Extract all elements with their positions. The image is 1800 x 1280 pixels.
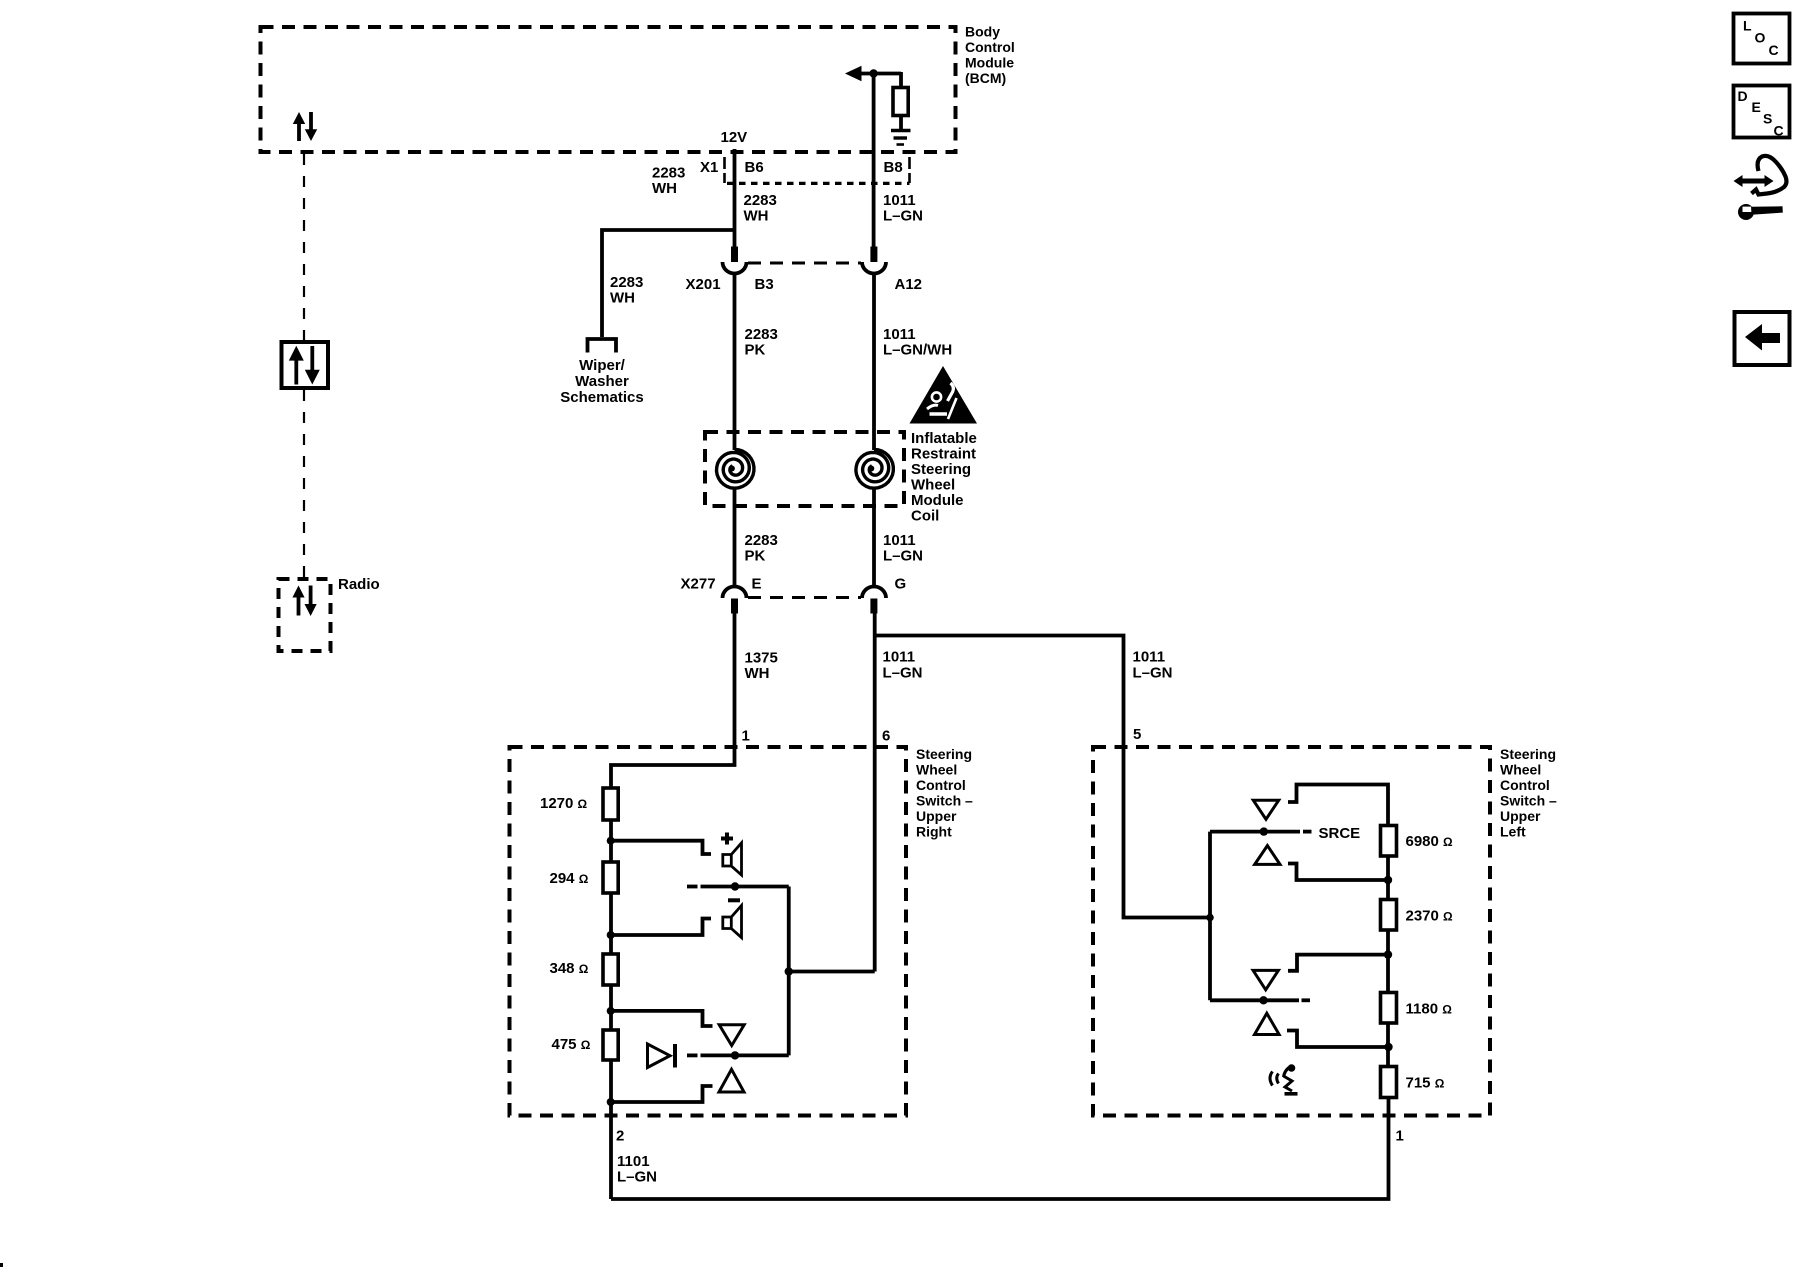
resistor 1270 ohm xyxy=(603,788,618,820)
wire 1011 L-GN to switch pin 6 xyxy=(873,613,877,972)
diagnostic tools icon xyxy=(1734,156,1787,220)
svg-text:Control: Control xyxy=(1500,777,1550,793)
X201 connector dashed link xyxy=(748,262,861,265)
wire seek common arm dash xyxy=(687,1054,698,1058)
svg-text:E: E xyxy=(1752,99,1761,115)
svg-text:1: 1 xyxy=(1396,1128,1404,1145)
wire xyxy=(899,116,903,131)
wire xyxy=(858,72,901,76)
speaker - sign xyxy=(728,898,740,902)
volume up triangle xyxy=(1253,800,1278,819)
svg-text:X201: X201 xyxy=(686,276,721,293)
svg-text:6: 6 xyxy=(882,728,890,745)
svg-text:1011: 1011 xyxy=(1133,649,1166,666)
svg-text:L–GN: L–GN xyxy=(883,665,923,682)
node bus junction c xyxy=(1384,1043,1392,1051)
svg-text:Left: Left xyxy=(1500,824,1526,840)
wire volume common xyxy=(701,885,789,889)
svg-text:L–GN: L–GN xyxy=(1133,665,1173,682)
wire 2283 PK xyxy=(733,274,737,451)
svg-text:1375: 1375 xyxy=(745,650,778,667)
connector X277 pin E (female arch + male bar) xyxy=(723,587,747,614)
svg-text:Steering: Steering xyxy=(916,746,972,762)
wire volume common arm dash xyxy=(687,885,698,889)
node volume common junction xyxy=(731,882,739,890)
wire bus a xyxy=(1386,856,1390,900)
svg-text:B3: B3 xyxy=(755,276,774,293)
svg-text:X1: X1 xyxy=(700,159,718,176)
svg-text:B6: B6 xyxy=(745,159,764,176)
svg-text:715 Ω: 715 Ω xyxy=(1406,1075,1445,1092)
wire common bus xyxy=(787,887,791,1056)
wire seek-up contact xyxy=(611,1011,713,1026)
svg-text:Wheel: Wheel xyxy=(911,477,955,494)
node ladder junction 2 xyxy=(607,931,615,939)
svg-text:C: C xyxy=(1774,123,1784,139)
svg-text:L: L xyxy=(1743,18,1752,34)
speaker icon (volume down) xyxy=(723,905,742,937)
Steering Wheel Control Switch - Upper Right dashed box xyxy=(510,747,907,1116)
resistor 1180 ohm xyxy=(1381,993,1397,1024)
radio box arrows xyxy=(292,586,316,617)
node bus junction b xyxy=(1384,950,1392,958)
svg-text:2283: 2283 xyxy=(745,326,778,343)
wire volume-up contact xyxy=(1288,785,1388,827)
wire volume-down contact xyxy=(1288,864,1388,881)
wire 1011 L-GN (below coil) xyxy=(872,487,876,587)
svg-text:Wiper/: Wiper/ xyxy=(579,357,626,374)
svg-text:2283: 2283 xyxy=(744,192,777,209)
svg-text:6980 Ω: 6980 Ω xyxy=(1406,833,1454,850)
diode xyxy=(648,1044,676,1068)
SIR caution triangle symbol xyxy=(910,366,978,424)
back nav button xyxy=(1735,312,1790,365)
svg-text:2283: 2283 xyxy=(610,274,643,291)
node feed junction xyxy=(1206,914,1214,922)
svg-text:(BCM): (BCM) xyxy=(965,70,1006,86)
dashed link to radio xyxy=(303,390,305,577)
svg-text:Washer: Washer xyxy=(575,373,629,390)
speaker icon (volume up) xyxy=(723,843,742,875)
svg-text:294 Ω: 294 Ω xyxy=(550,870,589,887)
off-page connector to wiper/washer schematics xyxy=(588,339,617,353)
svg-text:Control: Control xyxy=(965,39,1015,55)
wire branch to wiper/washer xyxy=(602,230,735,337)
svg-text:WH: WH xyxy=(610,290,635,307)
svg-text:1011: 1011 xyxy=(883,192,916,209)
svg-text:X277: X277 xyxy=(681,576,716,593)
resistor 715 ohm xyxy=(1381,1067,1397,1098)
svg-text:Inflatable: Inflatable xyxy=(911,430,977,447)
svg-text:Wheel: Wheel xyxy=(1500,762,1541,778)
node junction on B8 net xyxy=(869,69,877,77)
node ladder junction 3 xyxy=(607,1007,615,1015)
wire bus to pin 6 xyxy=(789,970,875,974)
node bus junction xyxy=(785,967,793,975)
node seek row junction xyxy=(1259,996,1267,1004)
connector X1 row xyxy=(725,157,910,183)
svg-text:PK: PK xyxy=(745,342,766,359)
connector X201 pin A12 xyxy=(862,247,886,274)
resistor 475 ohm xyxy=(603,1030,618,1060)
node bus junction a xyxy=(1384,876,1392,884)
wire volume-down contact xyxy=(611,919,711,936)
svg-text:5: 5 xyxy=(1133,726,1141,743)
svg-text:E: E xyxy=(752,576,762,593)
svg-text:Coil: Coil xyxy=(911,508,939,525)
svg-text:Restraint: Restraint xyxy=(911,446,976,463)
svg-text:348 Ω: 348 Ω xyxy=(550,960,589,977)
seek down triangle xyxy=(719,1069,744,1092)
wire seek row xyxy=(1210,998,1299,1002)
svg-text:O: O xyxy=(1755,30,1766,46)
svg-text:Module: Module xyxy=(965,55,1014,71)
svg-text:Body: Body xyxy=(965,24,1000,40)
svg-text:SRCE: SRCE xyxy=(1319,825,1361,842)
X277 connector dashed link xyxy=(748,596,861,599)
dashed link BCM to radio chain xyxy=(303,154,305,340)
svg-text:Steering: Steering xyxy=(1500,746,1556,762)
svg-text:B8: B8 xyxy=(884,159,903,176)
seek up triangle xyxy=(1253,970,1278,989)
BCM pull-up resistor xyxy=(893,88,908,116)
BCM internal up/down data arrows xyxy=(293,112,317,141)
wire 2283 WH from BCM B6 xyxy=(733,149,737,248)
resistor ladder wire xyxy=(609,820,613,862)
coil module dashed box xyxy=(705,432,904,506)
svg-text:Control: Control xyxy=(916,777,966,793)
connector X277 pin G xyxy=(862,587,886,614)
svg-text:G: G xyxy=(895,576,907,593)
node SRCE row junction xyxy=(1260,827,1268,835)
resistor 294 ohm xyxy=(603,862,618,893)
svg-text:Upper: Upper xyxy=(1500,808,1541,824)
svg-text:1011: 1011 xyxy=(883,326,916,343)
svg-text:1011: 1011 xyxy=(883,649,916,666)
interface box arrows xyxy=(289,346,320,385)
svg-text:C: C xyxy=(1769,42,1779,58)
wire pin 2 to pin 1 bottom run 1101 L-GN xyxy=(611,1097,1389,1199)
stray mark xyxy=(0,1263,3,1267)
wire seek-up contact xyxy=(1288,955,1388,971)
svg-text:WH: WH xyxy=(745,665,770,682)
svg-text:D: D xyxy=(1738,88,1748,104)
svg-text:Wheel: Wheel xyxy=(916,762,957,778)
Radio dashed box xyxy=(279,579,331,651)
steering wheel controls interface box xyxy=(282,342,329,388)
svg-text:1180 Ω: 1180 Ω xyxy=(1406,1001,1453,1018)
speaker + sign xyxy=(721,833,733,845)
DESC nav button xyxy=(1734,86,1790,139)
svg-text:Schematics: Schematics xyxy=(560,389,643,406)
svg-text:Upper: Upper xyxy=(916,808,957,824)
Body Control Module (BCM) dashed box xyxy=(261,27,956,152)
volume down triangle xyxy=(1255,846,1280,865)
svg-text:1011: 1011 xyxy=(883,532,916,549)
svg-text:S: S xyxy=(1763,111,1772,127)
wire bus b xyxy=(1386,930,1390,993)
wire seek arm dash xyxy=(1302,998,1311,1002)
ground xyxy=(891,131,911,145)
svg-text:Module: Module xyxy=(911,492,964,509)
coil center (left) xyxy=(729,466,735,472)
svg-text:2: 2 xyxy=(616,1128,624,1145)
svg-text:475 Ω: 475 Ω xyxy=(552,1036,591,1053)
wire seek common xyxy=(701,1054,789,1058)
svg-text:L–GN: L–GN xyxy=(617,1169,657,1186)
wire 1011 L-GN from BCM B8 xyxy=(872,74,876,248)
voice recognition icon xyxy=(1270,1064,1298,1094)
svg-text:Steering: Steering xyxy=(911,461,971,478)
svg-text:WH: WH xyxy=(744,208,769,225)
svg-text:Right: Right xyxy=(916,824,952,840)
svg-text:1101: 1101 xyxy=(617,1153,650,1170)
svg-text:WH: WH xyxy=(652,180,677,197)
seek down triangle xyxy=(1255,1013,1280,1034)
Steering Wheel Control Switch - Upper Left dashed box xyxy=(1093,747,1490,1116)
clockspring coil (right) xyxy=(856,449,893,488)
connector X201 pin B3 (male bar + female cup) xyxy=(723,247,747,274)
wire bus c xyxy=(1386,1023,1390,1067)
seek up triangle xyxy=(719,1025,744,1046)
svg-text:2370 Ω: 2370 Ω xyxy=(1406,908,1454,925)
svg-text:PK: PK xyxy=(745,548,766,565)
wire 1375 WH to switch pin 1 xyxy=(611,613,735,789)
wire 2283 PK (below coil) xyxy=(733,487,737,587)
wire 1011 L-GN branch to pin 5 xyxy=(875,636,1210,918)
coil center (right) xyxy=(868,466,874,472)
svg-text:2283: 2283 xyxy=(745,532,778,549)
svg-text:L–GN: L–GN xyxy=(883,548,923,565)
wire SRCE row xyxy=(1210,830,1300,834)
resistor 2370 ohm xyxy=(1381,900,1397,931)
node ladder junction 1 xyxy=(607,837,615,845)
wire 1011 L-GN/WH xyxy=(872,274,876,451)
LOC nav button xyxy=(1734,14,1790,64)
resistor 348 ohm xyxy=(603,954,618,985)
svg-text:1: 1 xyxy=(742,728,750,745)
wire seek-down contact xyxy=(611,1086,713,1102)
svg-text:Switch –: Switch – xyxy=(1500,793,1557,809)
svg-text:12V: 12V xyxy=(721,129,748,146)
svg-text:Switch –: Switch – xyxy=(916,793,973,809)
resistor 6980 ohm xyxy=(1381,826,1397,857)
BCM internal left-arrow output xyxy=(845,66,862,81)
svg-text:L–GN/WH: L–GN/WH xyxy=(883,342,952,359)
node seek common junction xyxy=(731,1051,739,1059)
svg-text:2283: 2283 xyxy=(652,165,685,182)
clockspring coil (left) xyxy=(717,449,754,488)
wire volume-up contact xyxy=(611,841,711,854)
svg-text:L–GN: L–GN xyxy=(883,208,923,225)
wire left feed bus xyxy=(1208,832,1212,1001)
node ladder junction 4 xyxy=(607,1098,615,1106)
svg-text:1270 Ω: 1270 Ω xyxy=(540,795,588,812)
svg-text:A12: A12 xyxy=(895,276,923,293)
wire xyxy=(899,72,903,88)
wire SRCE arm dash xyxy=(1303,830,1312,834)
svg-text:Radio: Radio xyxy=(338,576,380,593)
wire seek-down contact xyxy=(1287,1031,1389,1048)
